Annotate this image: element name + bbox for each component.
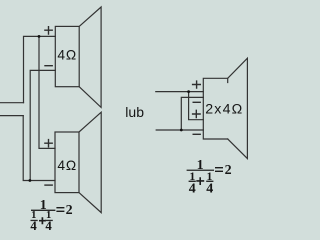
loudspeaker LS2 body (55, 132, 79, 193)
svg-text:4: 4 (30, 219, 37, 233)
LS3 coil2 plus terminal mark (192, 110, 201, 119)
LS2 plus terminal mark (44, 139, 53, 148)
svg-text:2: 2 (66, 203, 73, 218)
svg-text:4: 4 (45, 219, 52, 233)
junction dot top plus (38, 35, 41, 38)
svg-text:4Ω: 4Ω (57, 158, 77, 173)
loudspeaker LS2 horn (79, 112, 101, 212)
loudspeaker LS1 horn (79, 7, 101, 107)
wire plus drop to bottom speaker (39, 36, 55, 148)
svg-text:4Ω: 4Ω (57, 48, 77, 63)
equation left: equals sign (56, 207, 64, 208)
wire input stub 2 (minus) (0, 115, 23, 117)
junction dot bottom minus (29, 179, 32, 182)
wire right input plus (156, 91, 204, 93)
wire minus riser to top speaker (30, 70, 55, 180)
LS1 plus terminal mark (44, 26, 53, 35)
wire coil2 plus (189, 92, 204, 120)
equation right: main bar (187, 170, 214, 171)
svg-text:lub: lub (125, 104, 144, 120)
LS3 coil2 minus terminal mark (193, 133, 201, 135)
loudspeaker LS3 body (203, 78, 227, 139)
wire plus riser to top speaker (24, 36, 56, 102)
LS3 coil1 minus terminal mark (193, 101, 201, 103)
svg-text:4: 4 (206, 181, 213, 196)
wire right input minus (156, 129, 203, 131)
equation right: plus sign (196, 177, 204, 185)
loudspeaker LS3 horn (228, 58, 248, 158)
junction dot right minus (180, 129, 183, 132)
equation left: main bar (31, 210, 55, 211)
wire minus run to bottom speaker (23, 116, 55, 181)
svg-text:4: 4 (189, 181, 196, 196)
wire input stub 1 (plus) (0, 102, 24, 104)
LS2 minus terminal mark (44, 184, 53, 186)
junction dot right plus (187, 90, 190, 93)
svg-text:2: 2 (225, 163, 232, 178)
LS1 minus terminal mark (44, 65, 53, 67)
svg-text:2x4Ω: 2x4Ω (205, 102, 243, 118)
equation left: plus sign (39, 217, 46, 224)
loudspeaker LS1 body (55, 26, 79, 86)
wire coil1 minus (181, 97, 203, 130)
LS3 coil1 plus terminal mark (192, 80, 201, 88)
equation right: equals sign (215, 167, 223, 168)
